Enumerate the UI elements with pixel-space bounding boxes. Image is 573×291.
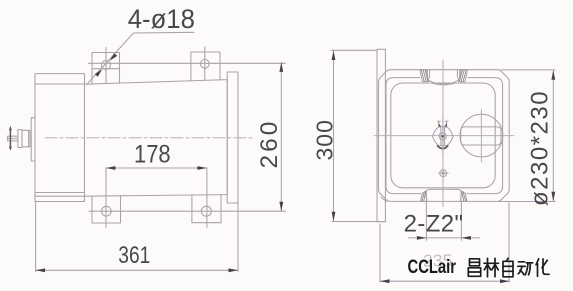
svg-text:260: 260 (256, 119, 283, 169)
left end cover (35, 74, 85, 202)
dimension 361: line (36, 269, 238, 271)
grease fitting slot walls (440, 127, 442, 146)
left cover top step line (35, 83, 85, 85)
dimension 2-Z2: left extension (425, 202, 427, 241)
weight circle vertical centerline (480, 109, 482, 162)
dimension 235 bottom: right extension (508, 203, 510, 282)
top foot right (191, 52, 220, 81)
top boss second floor arc (433, 84, 454, 85)
arrows 260 (279, 62, 283, 72)
shaft step cylinder (22, 130, 30, 147)
arrows 178 (106, 166, 116, 170)
svg-text:300: 300 (312, 119, 338, 160)
eccentric weight circle (460, 114, 503, 157)
top foot left hole (102, 61, 111, 70)
dimension 235 bottom: left extension (379, 224, 381, 282)
top boss inner wall lines (429, 70, 431, 78)
dimension 300: top extension (331, 49, 377, 51)
weight slot (461, 127, 501, 145)
arrows 361 (36, 268, 46, 272)
motor body (left side view) (85, 80, 228, 197)
bottom boss cup walls and ceiling (426, 189, 461, 201)
small bolt hole ticks (442, 168, 444, 178)
top boss left hatch wedge (420, 70, 429, 82)
svg-text:178: 178 (134, 140, 171, 168)
arrows 300 (332, 51, 336, 61)
svg-text:361: 361 (118, 241, 150, 269)
dimension 2-Z2: line (409, 237, 480, 239)
flange inner contour B (391, 83, 495, 188)
dimension 361: right extension (237, 203, 239, 272)
grease fitting center dot (441, 135, 444, 138)
long horizontal line: top feet hole centerline + 260 top extension (89, 62, 286, 64)
shaft bar (8, 136, 18, 141)
arrows 2-Z2 (outside, pointing inward) (417, 236, 427, 240)
dimension 178: extension/centerlines through bottom feet (105, 168, 107, 227)
svg-text:2-Z2": 2-Z2" (404, 211, 464, 238)
bearing boss on left cover (31, 118, 35, 161)
dimension 300: bottom extension (332, 221, 379, 223)
grease fitting inner circle (439, 133, 446, 140)
svg-text:ø230*230: ø230*230 (527, 90, 554, 206)
flange outer square (beveled corners) (379, 70, 510, 202)
top foot left extra line (92, 68, 120, 70)
bottom foot left (92, 196, 121, 223)
long horizontal line: bottom feet centerline + 260 bottom extension (89, 210, 286, 212)
dimension o230x230: line (552, 70, 554, 201)
dimension 361: left extension (35, 202, 37, 272)
grease fitting bottom cap (dark) (438, 146, 448, 149)
bottom boss right hatch wedge (461, 191, 467, 202)
horizontal centerline of left view (dashed) (45, 137, 254, 139)
char chang (468, 259, 480, 277)
right end cover (227, 72, 238, 203)
shaft flange plate (18, 130, 22, 148)
arrows leader 4-o18 (110, 53, 117, 61)
top foot right hole (200, 59, 209, 68)
grease fitting diamond (433, 127, 454, 146)
flange inner contour A (interrupted at bosses) (467, 78, 503, 194)
mounting bracket strip (edge-on) (377, 49, 385, 221)
dimension 2-Z2: right extension (460, 202, 462, 241)
top foot right vertical centerline (204, 47, 206, 80)
leader 4-o18: underline (134, 31, 195, 34)
dimension o230x230: top extension (502, 69, 556, 71)
top boss right hatch wedge (459, 70, 468, 82)
arrows 235 bottom (380, 279, 390, 283)
flange vertical centerline (442, 60, 444, 207)
strip corner chamfer (381, 197, 387, 201)
svg-text:4-ø18: 4-ø18 (128, 4, 195, 34)
dimension 178: line (106, 167, 207, 169)
char dong (518, 262, 533, 275)
top foot left (92, 53, 120, 85)
char zi (503, 258, 513, 277)
cotter pin (dark) (9, 128, 11, 149)
char lin (484, 258, 499, 277)
arrows o230x230 (551, 70, 555, 80)
svg-text:CCLair: CCLair (408, 256, 457, 277)
dimension 300: line (333, 51, 335, 222)
flange horizontal centerline (374, 135, 513, 137)
bottom boss left hatch wedge (421, 191, 427, 202)
dimension 235 bottom: line (380, 280, 510, 282)
leader 4-o18: diagonal (88, 33, 134, 84)
grease fitting vertical centerline (442, 119, 444, 154)
grease fitting crown (438, 121, 440, 127)
bottom foot left hole (101, 206, 111, 216)
bottom foot right (192, 195, 221, 223)
left cover bottom step lines (35, 192, 85, 194)
dimension 260: line (280, 62, 282, 211)
bottom foot right hole (201, 206, 211, 216)
top boss cup walls and floor (427, 70, 459, 84)
small bolt hole (440, 170, 447, 177)
char hua (536, 259, 549, 277)
dimension o230x230: bottom extension (499, 201, 556, 203)
watermark Chinese characters (hand drawn) (468, 258, 549, 277)
top foot left vertical centerline (105, 48, 107, 84)
